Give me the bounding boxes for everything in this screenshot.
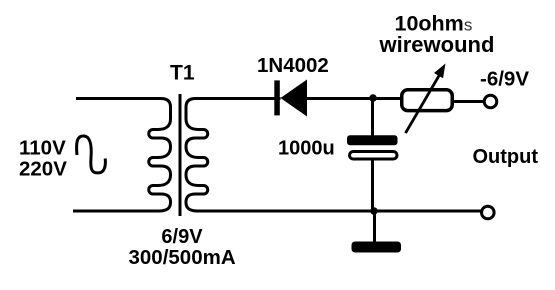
svg-text:110V: 110V <box>19 137 66 160</box>
svg-text:Output: Output <box>473 146 539 168</box>
svg-text:220V: 220V <box>19 158 67 181</box>
svg-text:6/9V: 6/9V <box>161 226 203 248</box>
svg-text:-6/9V: -6/9V <box>480 68 529 91</box>
svg-text:T1: T1 <box>170 62 195 85</box>
svg-text:300/500mA: 300/500mA <box>129 246 236 269</box>
svg-text:1N4002: 1N4002 <box>257 54 329 77</box>
svg-text:wirewound: wirewound <box>379 32 495 57</box>
svg-text:1000u: 1000u <box>278 138 335 160</box>
